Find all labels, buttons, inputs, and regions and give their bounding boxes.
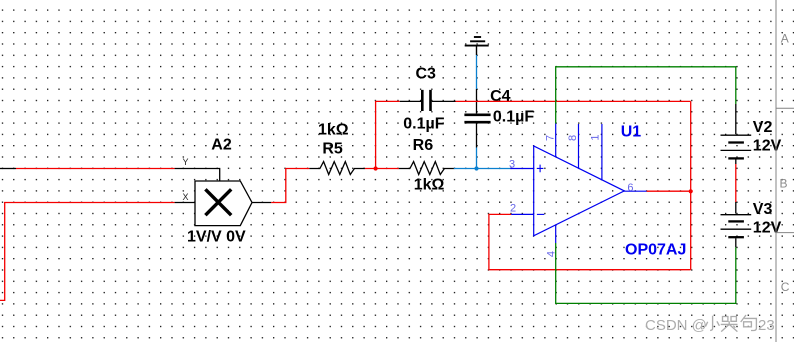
wire red Y input from left — [16, 168, 175, 170]
ground — [465, 37, 489, 55]
multiplier A2 X symbol — [205, 189, 231, 215]
wire black X pin lead into A2 — [175, 202, 195, 204]
wire red C3 to output column — [456, 100, 691, 102]
op-amp minus sign — [537, 213, 544, 215]
capacitor C3 leads — [400, 100, 456, 102]
svg-text:7: 7 — [544, 135, 556, 141]
svg-text:X: X — [183, 192, 189, 202]
wire red between batteries — [735, 164, 737, 202]
wire black stub left edge Y net — [0, 168, 16, 170]
watermark CSDN — [645, 315, 775, 334]
svg-text:V3: V3 — [753, 201, 773, 218]
pin 6 output stub — [624, 190, 646, 192]
watermark glyph ku — [721, 317, 738, 332]
wire red R5 to R6 through node — [365, 168, 399, 170]
svg-text:0.1µF: 0.1µF — [493, 108, 534, 125]
capacitor C4 plates — [464, 115, 490, 122]
watermark glyph bao — [741, 315, 757, 331]
svg-text:R6: R6 — [413, 137, 434, 154]
watermark glyph xiao — [706, 316, 720, 331]
svg-text:1kΩ: 1kΩ — [414, 176, 445, 193]
svg-text:1V/V 0V: 1V/V 0V — [187, 229, 246, 246]
svg-text:B: B — [780, 177, 788, 191]
svg-text:C4: C4 — [490, 88, 511, 105]
multiplier A2 body — [195, 181, 252, 226]
resistor R6 — [399, 162, 454, 175]
svg-text:OP07AJ: OP07AJ — [625, 241, 686, 258]
wire green V- supply rail — [556, 243, 736, 303]
svg-text:C3: C3 — [415, 66, 436, 83]
svg-text:3: 3 — [509, 158, 515, 170]
wire red feedback bottom rail — [489, 214, 691, 269]
wire blue C4 to plus node — [476, 148, 478, 169]
svg-text:A2: A2 — [211, 136, 232, 153]
wire black C4 bottom stub — [476, 124, 478, 148]
svg-text:23: 23 — [758, 317, 775, 334]
svg-text:V2: V2 — [753, 119, 773, 136]
svg-text:1kΩ: 1kΩ — [318, 121, 349, 138]
wire red output column vertical — [690, 101, 692, 269]
node output junction — [689, 189, 693, 193]
wire blue R6 to op-amp plus input — [454, 168, 510, 170]
resistor R5 — [309, 162, 365, 175]
wire red output stub to node — [647, 190, 691, 192]
svg-text:R5: R5 — [322, 140, 343, 157]
wire green V+ supply rail — [556, 67, 736, 124]
pin 3 stub — [510, 168, 534, 170]
sheet border tick 1 — [776, 107, 794, 109]
battery V2 — [721, 104, 752, 164]
svg-text:U1: U1 — [621, 123, 642, 140]
wire red A2 output to R5 — [271, 169, 309, 203]
pin 4 stub — [555, 225, 557, 243]
wire black A2 output lead — [252, 202, 271, 204]
wire black C4 top stub — [476, 89, 478, 113]
sheet border tick 2 — [776, 232, 794, 234]
node junction R5 R6 C3 — [374, 166, 378, 170]
node plus input junction — [474, 166, 478, 170]
svg-text:2: 2 — [510, 203, 516, 215]
svg-text:12V: 12V — [753, 219, 782, 236]
op-amp plus sign — [537, 165, 544, 173]
pin 7 stub — [555, 124, 557, 157]
svg-text:Y: Y — [183, 157, 189, 167]
wire red node up to C3 — [376, 101, 400, 168]
wire blue ground net down — [476, 55, 478, 89]
battery V3 — [721, 202, 752, 247]
svg-text:0.1µF: 0.1µF — [403, 115, 444, 132]
wire red X input from left with vertical drop — [0, 203, 175, 301]
svg-text:CSDN @: CSDN @ — [645, 317, 707, 334]
svg-text:6: 6 — [627, 182, 633, 194]
capacitor C3 plates — [422, 90, 430, 111]
pin 8 stub — [578, 124, 580, 168]
svg-text:8: 8 — [567, 135, 579, 141]
wire black Y pin lead into A2 — [175, 169, 220, 182]
pin 1 stub — [601, 124, 603, 180]
pin 2 stub — [511, 213, 534, 215]
svg-text:A: A — [781, 32, 789, 46]
sheet border line — [775, 0, 777, 342]
svg-text:1: 1 — [589, 134, 601, 140]
svg-text:C: C — [781, 280, 790, 294]
op-amp U1 triangle — [534, 146, 625, 236]
svg-text:12V: 12V — [753, 138, 782, 155]
